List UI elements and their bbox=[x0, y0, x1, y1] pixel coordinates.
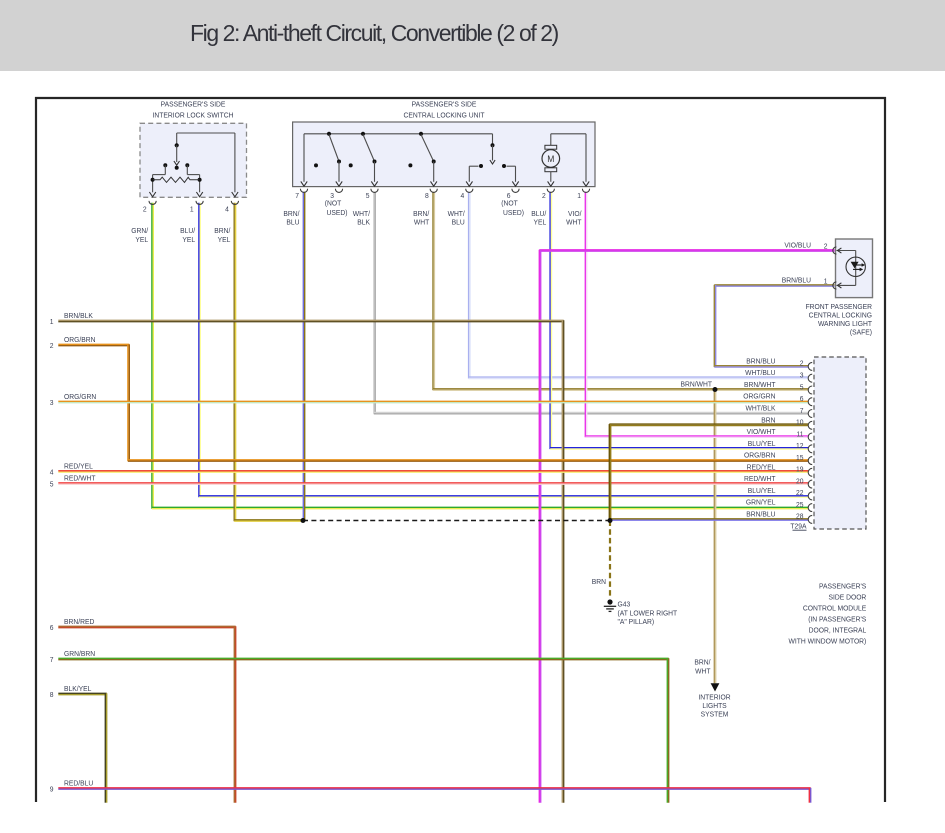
warning light LED internal circuit bbox=[837, 250, 856, 252]
connector arcs door control module bbox=[808, 362, 812, 370]
svg-text:(NOT: (NOT bbox=[325, 199, 342, 207]
svg-text:YEL: YEL bbox=[135, 236, 148, 244]
wire BRN/WHT drop to interior lights system bbox=[714, 389, 715, 683]
svg-text:BLU: BLU bbox=[452, 218, 465, 226]
wire BRN/BLU central pin7 to splice bbox=[303, 192, 304, 520]
svg-text:DOOR, INTEGRAL: DOOR, INTEGRAL bbox=[809, 626, 867, 634]
svg-text:WHT: WHT bbox=[695, 667, 711, 675]
svg-text:LIGHTS: LIGHTS bbox=[702, 702, 727, 710]
wire VIO/WHT central pin1 to module pin11 bbox=[585, 192, 808, 437]
connector arcs warning light bbox=[833, 247, 837, 254]
svg-text:12: 12 bbox=[796, 442, 804, 450]
svg-text:28: 28 bbox=[796, 512, 804, 520]
svg-text:YEL: YEL bbox=[218, 236, 231, 244]
svg-text:7: 7 bbox=[295, 192, 299, 200]
svg-text:BRN: BRN bbox=[761, 416, 775, 424]
svg-text:5: 5 bbox=[50, 480, 54, 488]
dashed splice wire between splices bbox=[303, 520, 610, 522]
svg-text:GRN/: GRN/ bbox=[131, 227, 148, 235]
passenger side interior lock switch box bbox=[140, 123, 247, 197]
svg-text:SIDE DOOR: SIDE DOOR bbox=[828, 593, 866, 601]
svg-text:2: 2 bbox=[50, 341, 54, 349]
svg-text:VIO/: VIO/ bbox=[568, 210, 582, 218]
svg-text:WARNING LIGHT: WARNING LIGHT bbox=[818, 320, 873, 328]
svg-text:ORG/BRN: ORG/BRN bbox=[64, 336, 95, 344]
wire BRN/BLU warning light pin1 to module pin2 bbox=[714, 285, 834, 367]
arrow to interior lights system bbox=[711, 683, 720, 691]
wire WHT/BLU central pin4 to module pin3 bbox=[469, 192, 809, 379]
svg-text:4: 4 bbox=[50, 468, 54, 476]
svg-text:3: 3 bbox=[800, 371, 804, 379]
resistor inside lock switch bbox=[151, 178, 155, 182]
svg-text:FRONT PASSENGER: FRONT PASSENGER bbox=[806, 303, 872, 311]
svg-text:4: 4 bbox=[461, 192, 465, 200]
svg-text:BLK: BLK bbox=[357, 218, 370, 226]
svg-text:Fig 2: Anti-theft Circuit, Con: Fig 2: Anti-theft Circuit, Convertible (… bbox=[190, 20, 559, 46]
svg-text:VIO/WHT: VIO/WHT bbox=[747, 428, 776, 436]
svg-text:BRN/BLU: BRN/BLU bbox=[746, 510, 775, 518]
svg-text:4: 4 bbox=[225, 205, 229, 213]
svg-text:G43: G43 bbox=[618, 600, 631, 608]
svg-text:2: 2 bbox=[542, 192, 546, 200]
svg-text:INTERIOR: INTERIOR bbox=[698, 693, 730, 701]
svg-text:BRN/BLU: BRN/BLU bbox=[746, 357, 775, 365]
svg-text:RED/BLU: RED/BLU bbox=[64, 779, 93, 787]
svg-text:6: 6 bbox=[50, 623, 54, 631]
svg-text:PASSENGER'S SIDE: PASSENGER'S SIDE bbox=[161, 100, 226, 108]
svg-text:RED/WHT: RED/WHT bbox=[744, 475, 776, 483]
svg-text:WHT/: WHT/ bbox=[353, 210, 370, 218]
svg-text:ORG/BRN: ORG/BRN bbox=[744, 451, 775, 459]
svg-text:BLU/YEL: BLU/YEL bbox=[748, 439, 776, 447]
svg-text:ORG/GRN: ORG/GRN bbox=[743, 392, 775, 400]
svg-text:BLU/: BLU/ bbox=[531, 210, 546, 218]
wire 4 RED/YEL to module pin19 bbox=[58, 471, 808, 472]
svg-text:GRN/BRN: GRN/BRN bbox=[64, 650, 95, 658]
motor M inside central locking unit bbox=[550, 134, 552, 146]
svg-text:1: 1 bbox=[50, 317, 54, 325]
svg-text:BRN/: BRN/ bbox=[214, 227, 230, 235]
svg-text:(AT LOWER RIGHT: (AT LOWER RIGHT bbox=[618, 609, 678, 617]
svg-text:(SAFE): (SAFE) bbox=[850, 328, 872, 336]
svg-text:(NOT: (NOT bbox=[501, 199, 518, 207]
svg-text:6: 6 bbox=[800, 395, 804, 403]
svg-text:RED/WHT: RED/WHT bbox=[64, 474, 96, 482]
svg-text:BRN: BRN bbox=[592, 578, 606, 586]
wire 7 GRN/BRN bbox=[58, 658, 668, 802]
svg-text:3: 3 bbox=[50, 398, 54, 406]
wire BLU/YEL central pin2 to module pin12 bbox=[550, 192, 808, 449]
svg-text:"A" PILLAR): "A" PILLAR) bbox=[618, 618, 655, 626]
svg-text:5: 5 bbox=[366, 192, 370, 200]
passenger side door control module box T29A bbox=[814, 357, 866, 529]
svg-text:T29A: T29A bbox=[790, 522, 806, 530]
svg-text:BLU: BLU bbox=[286, 218, 299, 226]
svg-text:BRN/RED: BRN/RED bbox=[64, 618, 94, 626]
svg-text:SYSTEM: SYSTEM bbox=[701, 710, 729, 718]
svg-text:BRN/WHT: BRN/WHT bbox=[681, 380, 713, 388]
wire BLU/YEL lock pin1 to module pin22 bbox=[199, 203, 808, 497]
svg-text:9: 9 bbox=[50, 785, 54, 793]
header bar bbox=[0, 0, 945, 71]
svg-text:INTERIOR LOCK SWITCH: INTERIOR LOCK SWITCH bbox=[153, 111, 234, 119]
svg-text:GRN/YEL: GRN/YEL bbox=[746, 498, 776, 506]
svg-text:WHT/: WHT/ bbox=[448, 210, 465, 218]
svg-text:CENTRAL LOCKING UNIT: CENTRAL LOCKING UNIT bbox=[403, 111, 485, 119]
svg-text:WHT: WHT bbox=[566, 218, 582, 226]
svg-text:USED): USED) bbox=[503, 209, 524, 217]
wire BRN/BLU splice to module pin28 bbox=[610, 519, 808, 520]
svg-text:ORG/GRN: ORG/GRN bbox=[64, 393, 96, 401]
connector arcs central locking unit bbox=[300, 189, 307, 193]
svg-text:5: 5 bbox=[800, 383, 804, 391]
svg-text:7: 7 bbox=[800, 406, 804, 414]
svg-text:CENTRAL LOCKING: CENTRAL LOCKING bbox=[809, 311, 873, 319]
wire BRN module pin10 to splice bbox=[609, 424, 808, 520]
ground G43 bbox=[607, 599, 612, 604]
svg-text:25: 25 bbox=[796, 501, 804, 509]
wire 6 BRN/RED bbox=[58, 626, 235, 802]
wire GRN/YEL lock pin2 to module pin25 bbox=[152, 203, 808, 509]
svg-text:WHT: WHT bbox=[414, 218, 430, 226]
svg-text:BLK/YEL: BLK/YEL bbox=[64, 685, 91, 693]
svg-text:2: 2 bbox=[800, 359, 804, 367]
svg-text:1: 1 bbox=[824, 277, 828, 285]
svg-text:BRN/WHT: BRN/WHT bbox=[744, 381, 776, 389]
svg-text:10: 10 bbox=[796, 418, 804, 426]
lock switch internal circuit bbox=[177, 132, 235, 134]
svg-text:19: 19 bbox=[796, 465, 804, 473]
svg-text:2: 2 bbox=[824, 242, 828, 250]
svg-text:RED/YEL: RED/YEL bbox=[747, 463, 776, 471]
svg-text:USED): USED) bbox=[327, 209, 348, 217]
splice node at 303,520 bbox=[301, 518, 306, 523]
wire VIO/BLU warning light pin2 down bbox=[539, 250, 834, 803]
passenger side central locking unit box bbox=[293, 122, 595, 187]
svg-text:20: 20 bbox=[796, 477, 804, 485]
svg-text:WITH WINDOW MOTOR): WITH WINDOW MOTOR) bbox=[789, 637, 867, 645]
wire 5 RED/WHT to module pin20 bbox=[58, 483, 808, 484]
svg-text:WHT/BLK: WHT/BLK bbox=[746, 404, 776, 412]
wire WHT/BLK central pin5 to module pin7 bbox=[374, 192, 808, 414]
wire 9 RED/BLU bbox=[58, 788, 810, 803]
splice node at 610,520 bbox=[608, 518, 613, 523]
svg-text:1: 1 bbox=[577, 192, 581, 200]
svg-text:BLU/: BLU/ bbox=[180, 227, 195, 235]
svg-text:BRN/: BRN/ bbox=[413, 210, 429, 218]
svg-text:PASSENGER'S SIDE: PASSENGER'S SIDE bbox=[412, 100, 477, 108]
svg-text:BRN/: BRN/ bbox=[694, 658, 710, 666]
svg-text:8: 8 bbox=[425, 192, 429, 200]
svg-text:22: 22 bbox=[796, 489, 804, 497]
svg-text:CONTROL MODULE: CONTROL MODULE bbox=[803, 604, 867, 612]
wire 2 ORG/BRN to module pin15 bbox=[58, 344, 808, 461]
svg-text:2: 2 bbox=[143, 205, 147, 213]
wire BRN/YEL lock pin4 to splice bbox=[234, 203, 303, 521]
connector arcs lock switch bbox=[149, 201, 156, 205]
svg-text:(IN PASSENGER'S: (IN PASSENGER'S bbox=[808, 615, 866, 623]
diagram frame border bbox=[35, 97, 886, 99]
svg-text:7: 7 bbox=[50, 655, 54, 663]
wire BRN/WHT central pin8 to module pin5 bbox=[433, 192, 808, 390]
svg-text:BRN/: BRN/ bbox=[283, 210, 299, 218]
central locking unit internal circuit bbox=[304, 133, 493, 135]
wire 3 ORG/GRN to module pin6 bbox=[58, 401, 808, 402]
svg-text:BRN/BLK: BRN/BLK bbox=[64, 312, 93, 320]
wire 8 BLK/YEL bbox=[58, 693, 106, 802]
svg-text:VIO/BLU: VIO/BLU bbox=[784, 241, 811, 249]
svg-text:PASSENGER'S: PASSENGER'S bbox=[819, 582, 866, 590]
svg-text:BRN/BLU: BRN/BLU bbox=[782, 276, 811, 284]
svg-text:11: 11 bbox=[796, 430, 803, 438]
svg-text:RED/YEL: RED/YEL bbox=[64, 462, 93, 470]
svg-text:M: M bbox=[547, 154, 554, 165]
svg-text:8: 8 bbox=[50, 690, 54, 698]
wire 1 BRN/BLK bbox=[58, 320, 563, 802]
dashed BRN wire to ground G43 bbox=[609, 521, 611, 599]
front passenger central locking warning light box bbox=[836, 239, 873, 298]
svg-text:15: 15 bbox=[796, 454, 804, 462]
svg-text:WHT/BLU: WHT/BLU bbox=[745, 369, 775, 377]
svg-text:1: 1 bbox=[190, 205, 194, 213]
svg-text:YEL: YEL bbox=[534, 218, 547, 226]
svg-text:YEL: YEL bbox=[182, 236, 195, 244]
splice node BRN/WHT at 715,389 bbox=[713, 387, 718, 392]
svg-text:BLU/YEL: BLU/YEL bbox=[748, 487, 776, 495]
